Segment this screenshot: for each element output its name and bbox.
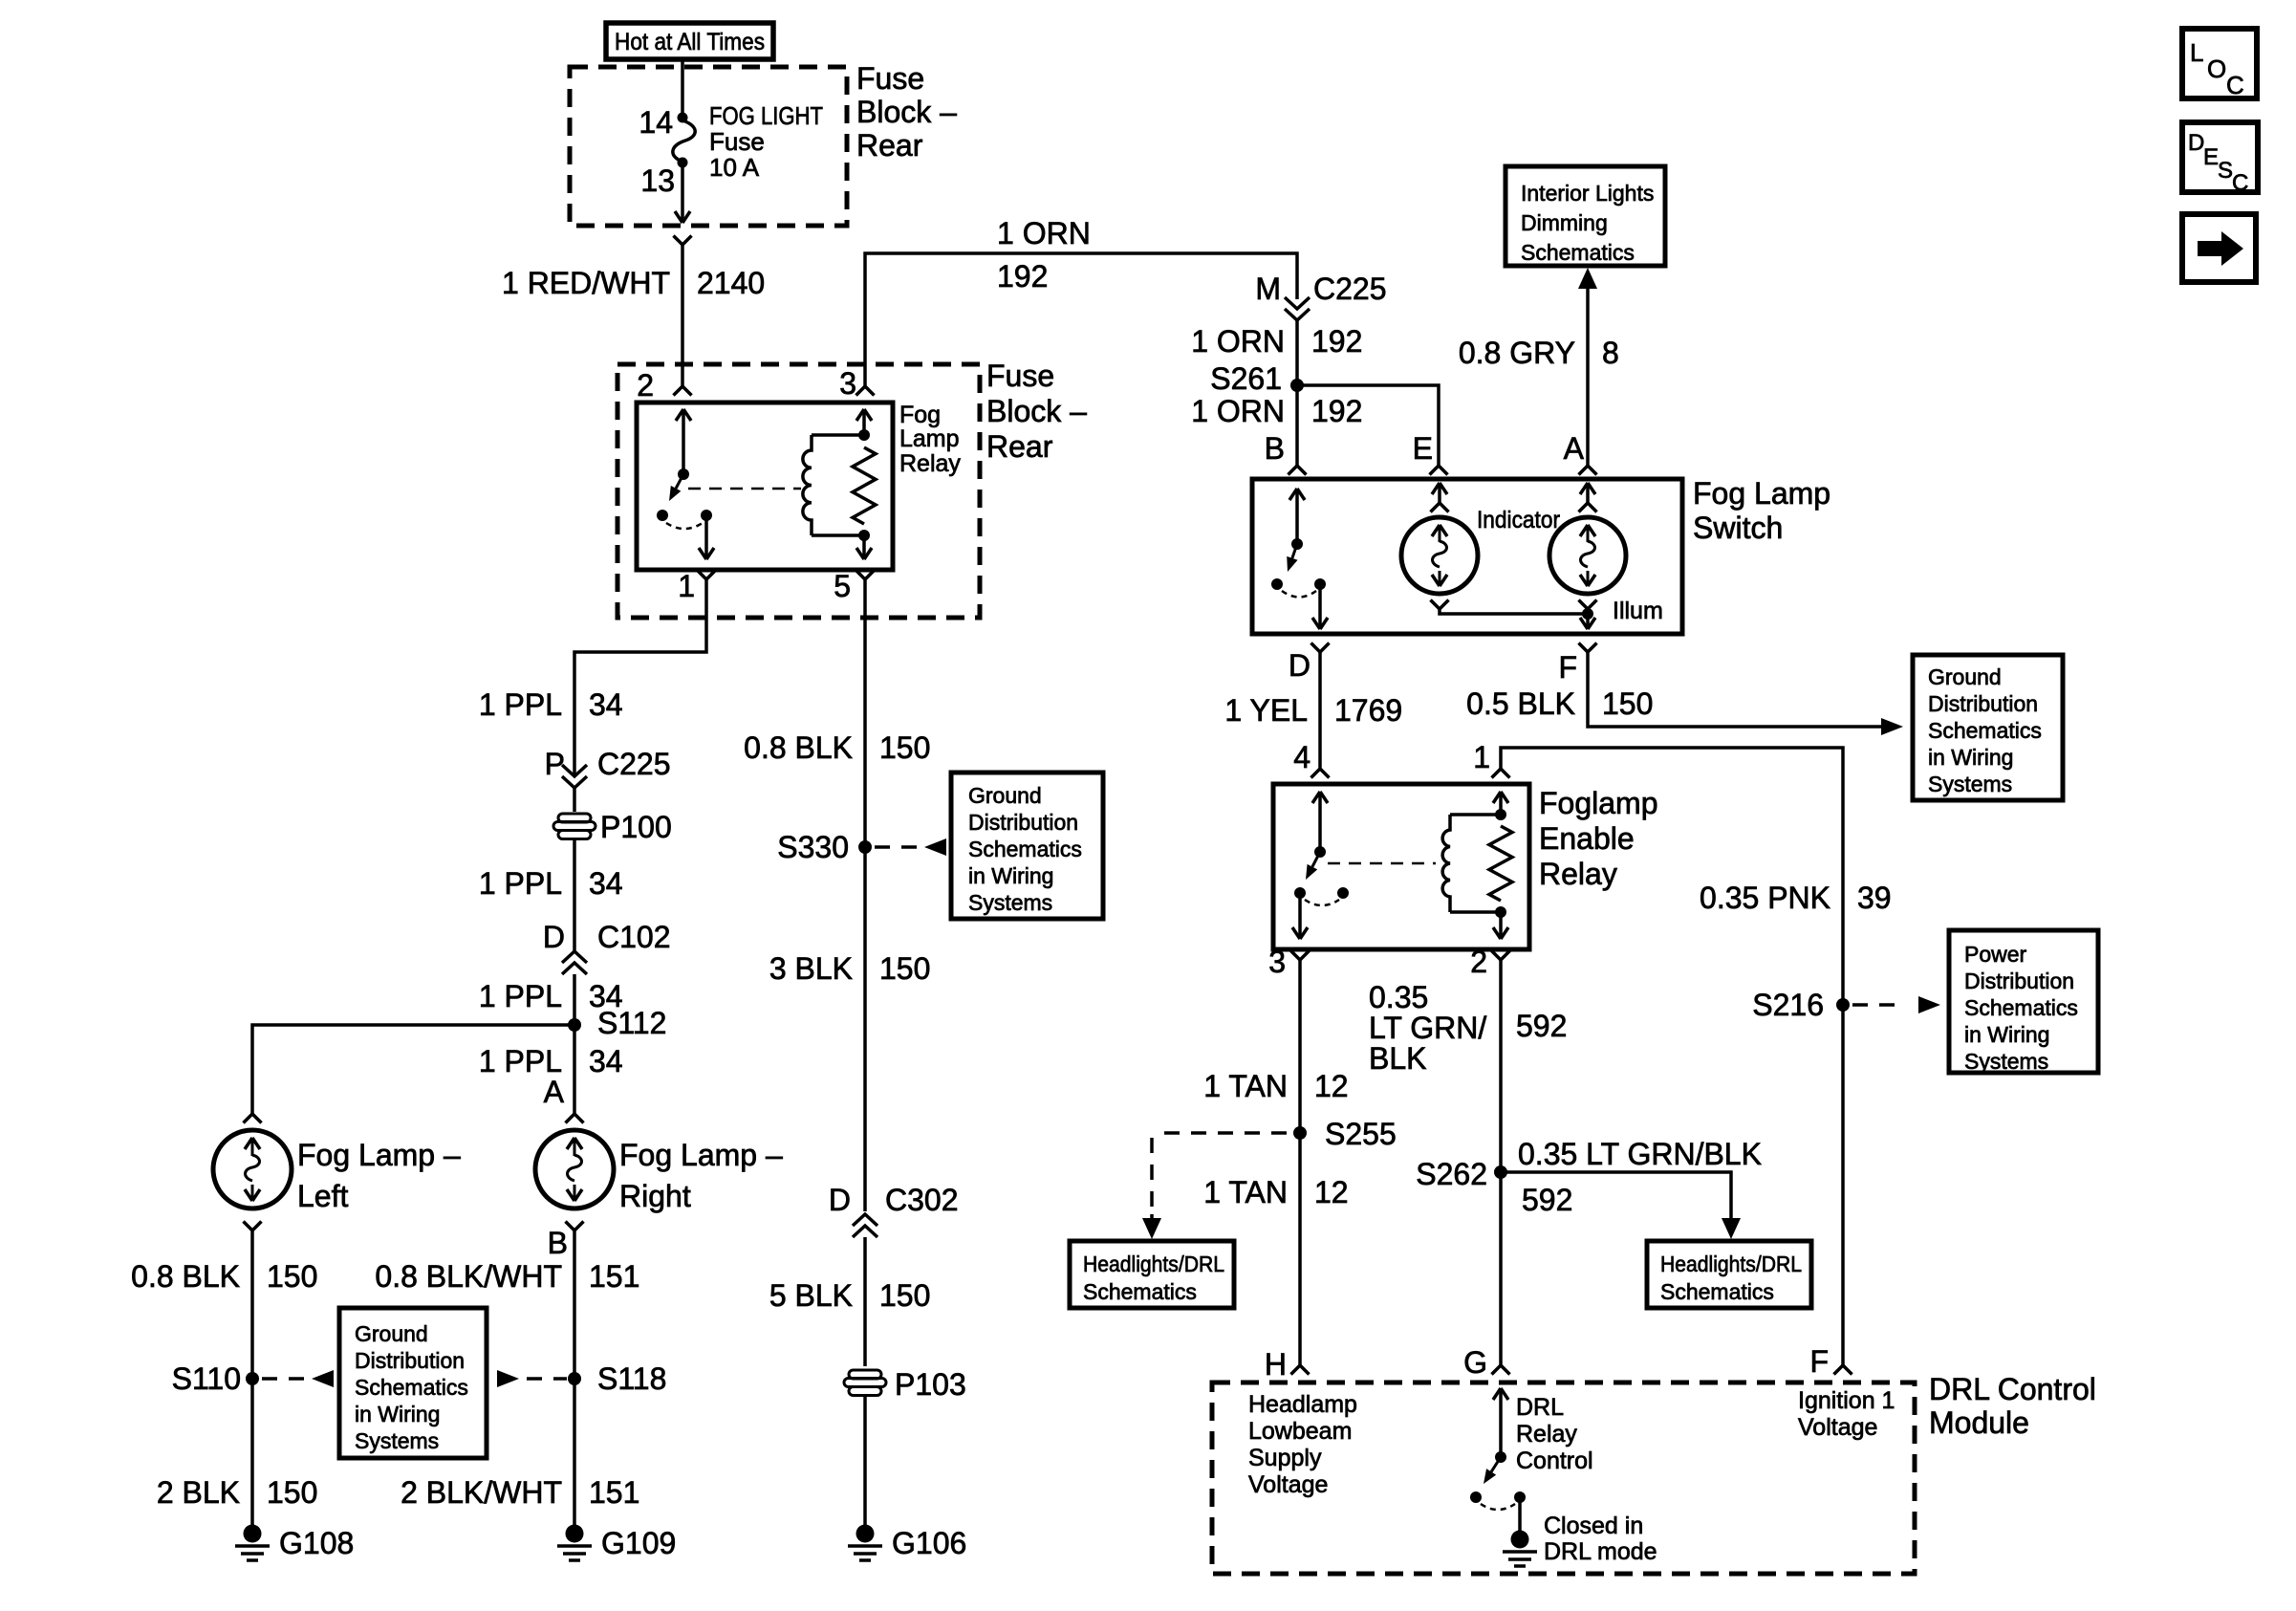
splice S261 dot [1290,379,1304,392]
component label: Fuse Block - Rear (upper) [856,61,957,163]
splice S255 dashed reference wire [1142,1133,1287,1239]
relay K1 NC contact dot [701,510,712,521]
svg-text:0.8 BLK: 0.8 BLK [744,730,853,765]
module switch arm [1484,1457,1501,1484]
splice S330 dot [858,840,872,854]
svg-text:0.8 BLK: 0.8 BLK [131,1259,240,1294]
component label: Fog Lamp - Left [297,1138,461,1213]
svg-text:C225: C225 [597,747,671,781]
pin 14 junction dot [678,113,688,123]
switch NC contact dot [1314,578,1326,590]
svg-text:Distribution: Distribution [1928,691,2038,716]
relay K2 coil return wire (pin 2) [1493,912,1508,939]
icon box LOC [2182,29,2257,99]
wire label 0.8 BLK/WHT 151 [375,1259,639,1294]
svg-text:1: 1 [678,569,695,603]
svg-text:Relay: Relay [899,450,961,477]
wire label 0.35 LT GRN/BLK 592 (branch) [1518,1137,1762,1217]
svg-text:Relay: Relay [1516,1421,1577,1448]
splice S330 label [777,830,849,864]
svg-text:34: 34 [589,1044,623,1078]
svg-text:G: G [1463,1345,1487,1380]
svg-text:150: 150 [879,730,930,765]
relay K1 pin 3 label [839,366,856,401]
relay K2 pin 4 terminal fork [1311,769,1330,778]
relay K2 NC contact dot [1337,887,1349,899]
svg-text:F: F [1809,1344,1829,1379]
wire 5 BLK 150 (P103 to G106) [863,1397,867,1526]
svg-text:Lowbeam: Lowbeam [1248,1418,1352,1445]
terminal fork: fuse block exit [674,236,692,246]
svg-text:1 PPL: 1 PPL [479,1044,562,1078]
svg-text:D: D [1289,648,1310,683]
module pin G label [1463,1345,1487,1380]
wire 2 BLK/WHT 151 (S118 to G109) [573,1379,576,1526]
svg-text:Fuse: Fuse [709,127,765,156]
arrow into ground distribution box (right) [1881,718,1903,735]
relay K1 node bottom dot [858,530,870,541]
wire 3 BLK 150 (S330 to C302) [863,847,867,1211]
svg-text:in Wiring: in Wiring [1964,1022,2049,1047]
svg-text:Illum: Illum [1613,598,1663,624]
svg-text:Lamp: Lamp [899,425,960,452]
svg-text:1 YEL: 1 YEL [1224,693,1308,728]
component label: Fog Lamp - Right [619,1138,783,1213]
splice S255 dot [1293,1126,1307,1140]
svg-text:12: 12 [1314,1069,1349,1103]
ground G106 [848,1525,882,1561]
svg-text:D: D [543,920,565,954]
svg-text:192: 192 [1311,394,1362,428]
relay K1 coil return wire (pin 5) [856,535,872,559]
lamp Indicator label [1477,507,1560,533]
switch pin D terminal fork [1311,643,1330,653]
svg-text:0.35 PNK: 0.35 PNK [1700,881,1830,915]
svg-text:8: 8 [1602,336,1619,370]
svg-text:0.8 BLK/WHT: 0.8 BLK/WHT [375,1259,562,1294]
switch output wire to pin D [1312,584,1328,629]
relay K1 Fog Lamp Relay box [637,403,893,570]
wire label 0.8 BLK 150 (left) [131,1259,317,1294]
svg-text:D: D [2188,130,2204,156]
svg-text:B: B [548,1226,568,1260]
reference box: Headlights/DRL Schematics (left) [1070,1241,1234,1308]
svg-text:Fog: Fog [899,402,941,428]
svg-text:Headlamp: Headlamp [1248,1391,1357,1418]
svg-text:Systems: Systems [1928,772,2012,796]
svg-text:S255: S255 [1325,1117,1397,1151]
relay K1 switch pivot dot [678,468,689,480]
svg-text:Schematics: Schematics [1521,240,1635,265]
relay K1 coil feed wire (pin 3) [856,409,872,435]
svg-text:192: 192 [1311,324,1362,359]
switch pivot dot [1291,538,1303,550]
svg-text:A: A [544,1075,565,1109]
relay K1 NO contact dot [657,510,668,521]
splice S262 label [1416,1157,1487,1191]
svg-text:2: 2 [1470,945,1487,979]
svg-text:Distribution: Distribution [968,810,1078,835]
wire: battery feed into fuse, pin 14 [681,59,684,115]
illumination lamp wire to pin F [1580,614,1595,629]
arrow into interior lights box [1578,268,1597,289]
svg-text:DRL: DRL [1516,1394,1564,1421]
wire 2 BLK 150 (S110 to G108) [250,1379,254,1526]
relay K1 common pin wire (pin 2) [676,409,691,470]
svg-text:Ground: Ground [355,1321,428,1346]
module pin F terminal fork [1834,1365,1852,1375]
relay K1 pin 1 terminal fork [698,571,716,580]
connector C102 pin D chevrons [562,951,587,974]
svg-text:Fuse: Fuse [856,61,924,96]
svg-text:151: 151 [589,1475,639,1510]
svg-text:Rear: Rear [856,128,923,163]
svg-text:O: O [2207,54,2226,83]
switch NO contact dot [1271,578,1283,590]
svg-text:5: 5 [834,569,851,603]
relay K2 pin 3 terminal fork [1291,951,1310,961]
svg-text:Schematics: Schematics [1660,1279,1774,1304]
svg-text:M: M [1255,272,1281,306]
relay K1 suppression resistor [853,447,876,524]
svg-text:10 A: 10 A [709,153,760,182]
reference box: Headlights/DRL Schematics (right) [1647,1241,1811,1308]
splice S261 label [1210,361,1282,396]
svg-text:Schematics: Schematics [968,837,1082,861]
svg-text:A: A [1564,431,1585,466]
relay K2 pin 2 terminal fork [1492,951,1510,961]
connector C302 pin D chevrons [853,1214,877,1237]
splice S118 dot [568,1372,581,1385]
relay K1 pin 5 terminal fork [856,571,875,580]
svg-text:Fog Lamp: Fog Lamp [1693,476,1830,511]
relay K2 NO contact dot [1294,887,1306,899]
wire 1 PPL 34 (S112 to fog lamp right) [573,1025,576,1114]
svg-text:P103: P103 [895,1367,966,1402]
svg-text:Power: Power [1964,942,2027,967]
wire 0.8 BLK 150 (lamp left to S110) [250,1230,254,1379]
svg-text:in Wiring: in Wiring [968,863,1053,888]
relay K1 switch arm [669,474,683,501]
relay K2 node top dot [1495,809,1506,820]
svg-text:1: 1 [1473,740,1490,774]
wire label 5 BLK 150 [769,1278,931,1313]
svg-text:Block –: Block – [856,95,957,129]
svg-text:Systems: Systems [968,890,1052,915]
svg-text:1 RED/WHT: 1 RED/WHT [502,266,670,300]
svg-text:H: H [1265,1347,1287,1382]
svg-text:BLK: BLK [1369,1041,1426,1076]
svg-text:S262: S262 [1416,1157,1487,1191]
relay K1 pin 1 label [678,569,695,603]
splice S216 dot [1836,998,1850,1012]
connector C225 pin P chevrons [562,765,587,788]
svg-text:1 ORN: 1 ORN [1191,324,1285,359]
relay K2 coil feed wire (pin 1) [1493,792,1508,815]
svg-text:Voltage: Voltage [1248,1471,1328,1498]
wire 1 ORN 192 (C225 to S261) [1295,320,1299,381]
wire 1 RED/WHT 2140 [681,245,684,386]
svg-text:Switch: Switch [1693,511,1783,545]
svg-text:Control: Control [1516,1448,1593,1474]
module pin F function label [1798,1387,1895,1441]
svg-text:3: 3 [839,366,856,401]
wire: S261 to switch pin B [1295,385,1299,466]
svg-text:in Wiring: in Wiring [1928,745,2013,770]
splice S216 dashed reference link [1852,996,1940,1013]
wire 1 YEL 1769 (switch D to relay K2 pin 4) [1318,652,1322,769]
svg-text:F: F [1558,650,1577,685]
wire label 1 ORN 192 (below S261) [1191,394,1362,428]
pin 14 label [639,105,673,140]
splice S110 dot [246,1372,259,1385]
svg-text:1 PPL: 1 PPL [479,687,562,722]
svg-text:Indicator: Indicator [1477,507,1560,533]
relay K1 pin 3 terminal fork [856,386,875,396]
svg-text:L: L [2190,38,2203,67]
node Illum label [1613,598,1663,624]
relay K2 pin 1 label [1473,740,1490,774]
wire label 0.35 LT GRN/BLK (multiline) [1369,980,1567,1076]
svg-text:S112: S112 [597,1006,666,1040]
component label: Foglamp Enable Relay [1539,786,1658,891]
svg-text:DRL Control: DRL Control [1929,1372,2096,1406]
grommet P103 [844,1370,886,1396]
svg-text:150: 150 [879,951,930,986]
relay K2 switch arm [1306,852,1320,880]
svg-text:3: 3 [1268,945,1286,979]
module pin H label [1265,1347,1287,1382]
module switch contact dot (left) [1470,1491,1482,1503]
svg-text:Schematics: Schematics [1928,718,2042,743]
svg-text:S118: S118 [597,1361,666,1396]
lamp: Fog Lamp - Left [213,1130,292,1208]
wire label 192 under horizontal run [997,259,1048,294]
pin 13 label [640,163,675,198]
wire label 1 TAN 12 (upper) [1203,1069,1348,1103]
svg-text:0.35 LT GRN/BLK: 0.35 LT GRN/BLK [1518,1137,1762,1171]
splice S216 label [1752,988,1824,1022]
fog lamp right bottom fork [566,1222,584,1231]
connector C225 pin P label [545,747,671,781]
relay K2 Foglamp Enable Relay box [1273,784,1529,949]
grommet P103 label [895,1367,966,1402]
relay K2 pin 4 label [1293,740,1310,774]
fog lamp right pin A label [544,1075,565,1109]
svg-text:Interior Lights: Interior Lights [1521,181,1654,206]
svg-text:14: 14 [639,105,673,140]
ground G106 label [892,1526,966,1560]
relay K1 actuation dashed link [688,488,801,490]
wire label 0.5 BLK 150 [1466,686,1653,721]
switch pin B wire [1289,489,1305,540]
wire label 1 YEL 1769 [1224,693,1402,728]
switch pin F label [1558,650,1577,685]
relay K2 output wire to pin 3 [1292,893,1308,939]
connector C225 pin M label [1255,272,1386,306]
reference box: Ground Distribution Schematics in Wiring Systems (middle) [951,773,1103,919]
relay K2 switch pivot dot [1314,846,1326,858]
svg-text:S330: S330 [777,830,849,864]
splice S118 label [597,1361,666,1396]
svg-text:C: C [2226,71,2244,99]
module internal ground wire [1518,1497,1522,1532]
splice S330 dashed reference link [875,838,946,856]
fog lamp right terminal fork [566,1114,584,1123]
svg-text:Ground: Ground [1928,664,2002,689]
svg-text:Supply: Supply [1248,1445,1322,1471]
power tag: Hot at All Times [606,23,773,59]
component label: Fuse Block - Rear (lower) [986,359,1087,464]
module pin G terminal fork [1492,1365,1510,1375]
svg-text:Fog Lamp –: Fog Lamp – [619,1138,783,1172]
svg-text:FOG LIGHT: FOG LIGHT [709,101,823,130]
svg-text:1 TAN: 1 TAN [1203,1175,1288,1209]
reference box: Ground Distribution Schematics in Wiring Systems (lower left) [339,1308,487,1458]
wire label 1 RED/WHT 2140 [502,266,765,300]
svg-text:E: E [1413,431,1433,466]
reference box: Interior Lights Dimming Schematics [1505,166,1665,266]
pin B label [1265,431,1285,466]
svg-text:C225: C225 [1313,272,1387,306]
svg-text:Ground: Ground [968,783,1042,808]
switch contact dashed arc [1282,591,1316,598]
svg-text:1 PPL: 1 PPL [479,866,562,901]
svg-text:Dimming: Dimming [1521,210,1608,235]
wire label 1 ORN over horizontal run [997,216,1091,250]
svg-text:P: P [545,747,565,781]
wire 0.8 GRY 8 (switch A to interior lights) [1586,289,1590,466]
svg-text:C102: C102 [597,920,671,954]
wire: S261 branch to switch pin E [1297,385,1439,466]
svg-text:5 BLK: 5 BLK [769,1278,853,1313]
svg-text:B: B [1265,431,1285,466]
splice S118 dashed reference link [497,1370,567,1387]
svg-text:592: 592 [1516,1009,1567,1043]
module U1 DRL Control Module dashed box [1212,1382,1915,1574]
splice S112 label [597,1006,666,1040]
illumination lamp bottom fork [1579,600,1597,610]
ground G109 [557,1525,592,1561]
svg-text:S261: S261 [1210,361,1282,396]
svg-text:in Wiring: in Wiring [355,1402,440,1426]
icon box DESC [2182,122,2258,196]
svg-text:Fog Lamp –: Fog Lamp – [297,1138,461,1172]
wire label 1 ORN 192 (above S261) [1191,324,1362,359]
svg-text:Right: Right [619,1179,691,1213]
wire label 1 PPL 34 (second) [479,866,623,901]
svg-text:34: 34 [589,687,623,722]
switch arm [1287,544,1297,572]
svg-text:192: 192 [997,259,1048,294]
svg-text:Block –: Block – [986,394,1087,428]
svg-text:2 BLK: 2 BLK [157,1475,240,1510]
svg-text:Left: Left [297,1179,348,1213]
fuse block rear (lower) dashed box [617,364,980,618]
lamp: Fog Lamp - Right [535,1130,614,1208]
svg-text:Module: Module [1929,1405,2029,1440]
module pin H function label [1248,1391,1357,1498]
svg-text:Closed in: Closed in [1544,1513,1643,1539]
splice S112 dot [568,1018,581,1032]
relay K1 coil bottom wire [812,533,864,537]
svg-text:S: S [2218,158,2233,184]
svg-text:592: 592 [1522,1183,1572,1217]
relay K1 contact dashed arc [666,523,703,529]
svg-text:13: 13 [640,163,675,198]
module switch contact dot (right) [1514,1491,1526,1503]
svg-text:0.35: 0.35 [1369,980,1428,1014]
indicator lamp feed (pin E) [1431,483,1449,512]
svg-text:1 ORN: 1 ORN [997,216,1091,250]
relay K2 coil top wire [1450,813,1501,816]
wire: fuse output with arrow [675,165,690,223]
wire 0.35 LT GRN/BLK 592 (S262 branch to headlights ref) [1501,1172,1741,1239]
svg-text:4: 4 [1293,740,1310,774]
svg-text:Schematics: Schematics [1083,1279,1197,1304]
wire 0.5 BLK 150 (switch F to ground ref) [1588,652,1881,727]
svg-text:Rear: Rear [986,429,1053,464]
wire 5 BLK 150 (C302 to P103) [863,1237,867,1366]
component label: Fog Lamp Relay [899,402,961,477]
icon box arrow [2182,214,2256,282]
relay K2 common pin wire (pin 4) [1312,792,1328,848]
module pin G function label [1516,1394,1593,1474]
relay K2 contact dashed arc [1305,900,1339,905]
splice S255 label [1325,1117,1397,1151]
relay K2 pin 3 label [1268,945,1286,979]
svg-text:0.5 BLK: 0.5 BLK [1466,686,1575,721]
svg-text:Foglamp: Foglamp [1539,786,1658,820]
wire label 1 TAN 12 (lower) [1203,1175,1348,1209]
component label: DRL Control Module [1929,1372,2096,1440]
relay K2 actuation dashed link [1328,862,1436,865]
splice S110 label [172,1361,241,1396]
wire 0.35 PNK 39 (relay K2 pin 1 to DRL module F) [1501,748,1843,1365]
svg-text:150: 150 [267,1259,317,1294]
module pin H terminal fork [1291,1365,1310,1375]
svg-text:P100: P100 [600,810,672,844]
fog lamp left terminal fork [244,1114,262,1123]
wire 0.8 BLK/WHT 151 (lamp right to S118) [573,1230,576,1379]
svg-text:Relay: Relay [1539,857,1617,891]
relay K1 node top dot [858,429,870,441]
relay K1 pin 5 label [834,569,851,603]
splice S262 dot [1494,1165,1507,1179]
indicator lamp wire to Illum node [1440,609,1588,614]
svg-text:2140: 2140 [697,266,765,300]
wire 1 ORN 192 (horizontal to C225) [865,253,1297,386]
wire label 2 BLK/WHT 151 [401,1475,639,1510]
svg-text:Systems: Systems [355,1428,439,1453]
svg-text:DRL mode: DRL mode [1544,1538,1657,1565]
svg-text:150: 150 [267,1475,317,1510]
svg-text:150: 150 [1602,686,1653,721]
wire 1 PPL 34 (pin 1 jog to left column) [574,579,706,776]
module pin F label [1809,1344,1829,1379]
ground G108 [235,1525,270,1561]
wire label 1 PPL 34 (top) [479,687,623,722]
svg-text:3 BLK: 3 BLK [769,951,853,986]
svg-text:S110: S110 [172,1361,241,1396]
component label: Fog Lamp Switch [1693,476,1830,545]
relay K1 output wire to pin 1 [699,515,714,559]
relay K2 coil [1442,815,1450,912]
svg-text:E: E [2203,144,2219,170]
wire 0.35 LT GRN/BLK 592 (S262 to DRL module G) [1499,1172,1503,1365]
module switch note: Closed in DRL mode [1544,1513,1657,1565]
reference box: Power Distribution Schematics in Wiring Systems [1949,930,2098,1074]
